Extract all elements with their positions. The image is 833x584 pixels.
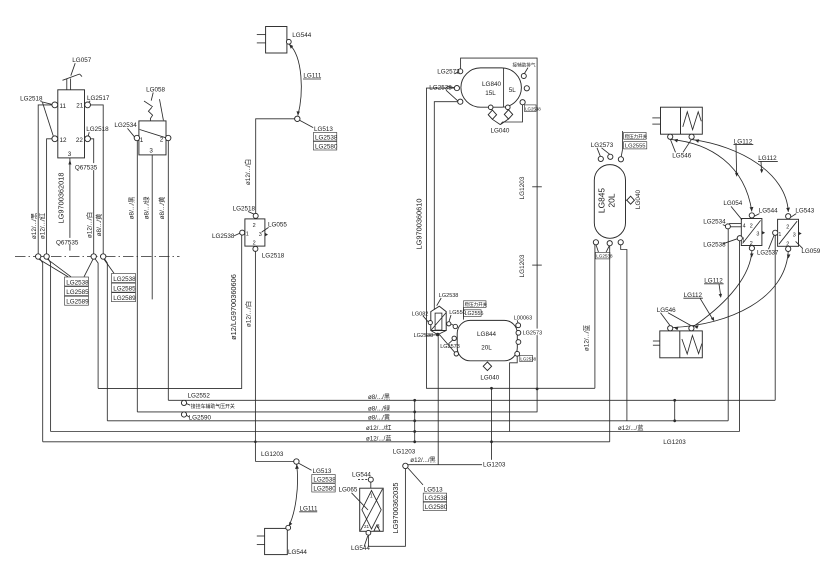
LG055 left port circle (240, 230, 245, 235)
svg-text:ø8/.../黑: ø8/.../黑 (368, 394, 390, 401)
svg-text:LG544: LG544 (292, 32, 311, 39)
riser L3 to LG054 stub (727, 229, 729, 421)
svg-text:4: 4 (743, 224, 746, 230)
LG845 top ports (598, 154, 623, 162)
LG543 top port (786, 214, 791, 219)
LG055 port3 wire to L5 and LG513 coupling (255, 251, 293, 461)
label LG2517 (87, 95, 110, 103)
leader to LG513 stack bottom (299, 463, 312, 470)
svg-text:LG1203: LG1203 (483, 462, 506, 469)
LG546 top chamber ports (668, 134, 695, 139)
LG055 bottom port circle (253, 246, 258, 251)
junction coupling top (295, 116, 300, 121)
trailer tie pipe LG1203 mid (393, 399, 416, 456)
svg-text:ø12/.../红: ø12/.../红 (38, 212, 47, 239)
tie pipe L1-L3 right (663, 399, 686, 446)
relay valve LG543 (778, 219, 802, 247)
svg-text:稳压力开关: 稳压力开关 (625, 133, 648, 140)
svg-text:ø12/.../蓝: ø12/.../蓝 (618, 424, 643, 432)
quick release valve LG054 (741, 219, 765, 247)
trailer control drop pipe (408, 387, 506, 469)
svg-text:LG082: LG082 (412, 311, 429, 317)
svg-text:接挂车辅助气压开关: 接挂车辅助气压开关 (191, 403, 235, 410)
label LG059 (796, 241, 821, 255)
quick coupling B (44, 254, 49, 259)
label LG2573 LG840 (437, 68, 460, 75)
svg-text:LG1203: LG1203 (519, 176, 526, 199)
wire LG058 port2 down (167, 141, 169, 401)
label LG112 bottom-right (704, 277, 724, 298)
LG845 right outlet to L3 (621, 245, 627, 421)
svg-text:LG2555: LG2555 (465, 311, 484, 317)
flow tick 2 (532, 264, 542, 266)
svg-text:LG2538: LG2538 (414, 333, 434, 339)
LG845 left outlet down (joins supply) (594, 245, 596, 388)
junction coupling bottom left (294, 459, 299, 464)
svg-text:11: 11 (60, 103, 67, 110)
svg-text:LG2585: LG2585 (113, 286, 136, 293)
air dryer LG544 top box (257, 27, 287, 54)
svg-text:ø12/.../白: ø12/.../白 (84, 212, 93, 238)
leader to LG513 stack center (408, 468, 423, 485)
svg-text:LG1203: LG1203 (393, 448, 416, 455)
label LG2537 (756, 235, 779, 256)
check valve diamonds and LG040 drain (488, 105, 522, 135)
hose LG112 C bottom (693, 251, 754, 329)
label LG2538 LG840 (429, 84, 457, 101)
port 21 circle (85, 102, 91, 108)
svg-text:LG2538: LG2538 (113, 276, 136, 283)
air tank LG844 (457, 320, 517, 360)
label LG2518 right (86, 125, 110, 136)
label LG2538 assembly bottom (414, 333, 436, 339)
label LG2538 assembly top (437, 293, 459, 306)
wire port21 branch to LG055 port1 (98, 235, 242, 388)
svg-text:LG111: LG111 (303, 73, 321, 80)
svg-text:ø8/.../黄: ø8/.../黄 (368, 413, 390, 421)
svg-text:LG055: LG055 (268, 221, 287, 228)
svg-text:LG058: LG058 (146, 87, 165, 94)
label L00063 (514, 315, 532, 322)
svg-text:2: 2 (750, 224, 753, 230)
port 2 circle LG058 (166, 135, 171, 140)
svg-text:接辅助排气: 接辅助排气 (513, 62, 536, 69)
svg-text:ø8/.../绿: ø8/.../绿 (368, 404, 391, 412)
svg-text:ø12/.../蓝: ø12/.../蓝 (366, 434, 391, 442)
svg-text:ø12/.../蓝: ø12/.../蓝 (581, 324, 590, 351)
leader to fitting stack 2 (104, 259, 114, 273)
port 12 circle (52, 136, 58, 142)
protection valve LG055 body (245, 219, 268, 246)
LG845 bottom ports (593, 240, 623, 246)
svg-text:LG1203: LG1203 (261, 451, 284, 458)
trailer pipe to L3 (104, 259, 107, 421)
vent label and port (513, 62, 536, 79)
svg-text:LG2538: LG2538 (520, 357, 536, 362)
svg-text:LG2538: LG2538 (212, 233, 235, 240)
leader to LG513 stack top (300, 120, 313, 127)
svg-text:LG9700362018: LG9700362018 (57, 173, 66, 224)
air tank LG840 (461, 68, 522, 107)
LG054 left port (737, 236, 742, 241)
svg-text:LG040: LG040 (491, 128, 510, 135)
assembly right port (447, 322, 451, 326)
hand brake valve LG057 body (58, 90, 85, 158)
label LG111 top (303, 73, 322, 80)
LG040 drain of LG844 (480, 362, 499, 382)
quick coupling A (36, 254, 41, 259)
svg-text:LG2590: LG2590 (189, 414, 212, 421)
riser L1 to LG543 port1 (774, 235, 776, 400)
svg-text:LG057: LG057 (72, 57, 91, 64)
svg-text:ø12/.../白: ø12/.../白 (243, 159, 252, 185)
label ø12 blue right (617, 422, 658, 430)
svg-text:3: 3 (793, 232, 796, 238)
svg-text:LG040: LG040 (480, 375, 499, 382)
label LG544 above LG065 (352, 472, 371, 480)
junction coupling bottom center (403, 463, 408, 468)
svg-text:LG2537: LG2537 (757, 250, 779, 256)
label LG2518 left (20, 96, 53, 136)
label LG112 bottom-left (683, 292, 714, 322)
svg-text:LG1203: LG1203 (663, 439, 686, 446)
fitting stack 1 LG2538 LG2585 LG2589 (65, 277, 90, 306)
svg-text:20L: 20L (607, 193, 617, 207)
flow tick 1 (532, 186, 542, 188)
spring brake chamber LG546 top (652, 107, 702, 134)
main line L5 (43, 441, 610, 443)
lever of LG058 (144, 99, 163, 121)
svg-text:ø8/.../黄: ø8/.../黄 (94, 213, 103, 236)
supply loop over LG840 (461, 58, 537, 412)
label LG2573 LG845 (591, 142, 614, 156)
svg-text:3: 3 (68, 151, 72, 158)
trailer pipe to L4 (48, 259, 50, 432)
svg-text:LG2573: LG2573 (591, 142, 614, 149)
wire port12 to pipe (47, 139, 52, 254)
label LG2573 right of LG844 (522, 329, 542, 336)
wire port11 to left pipe (38, 105, 52, 254)
assembly bottom node (436, 333, 440, 337)
label LG544 below LG065 (351, 536, 370, 552)
label LG065 (339, 487, 369, 510)
svg-text:LG2518: LG2518 (262, 253, 285, 260)
svg-text:LG513: LG513 (424, 487, 443, 494)
label LG111 bottom (299, 505, 318, 512)
svg-text:LG2518: LG2518 (20, 96, 43, 103)
feed pipe LG840 to protection assembly (434, 102, 457, 310)
LG844 bottom right port (515, 351, 520, 356)
svg-text:21: 21 (364, 524, 370, 529)
LG054 inlet stub (725, 224, 741, 229)
label LG550 (449, 310, 466, 322)
svg-text:LG2573: LG2573 (440, 344, 460, 350)
port 1 circle LG058 (134, 135, 139, 140)
svg-text:LG2538: LG2538 (425, 495, 448, 502)
boxed label LG2538 at LG844 (520, 355, 537, 361)
wire port22 to pipe (91, 139, 94, 254)
LG840 right mid port (524, 86, 529, 91)
svg-text:LG2518: LG2518 (86, 126, 109, 133)
svg-text:Q67535: Q67535 (75, 165, 98, 172)
svg-text:12: 12 (60, 137, 68, 144)
svg-text:LG9700362035: LG9700362035 (391, 483, 400, 534)
label LG2534 (114, 122, 137, 137)
label LG054 (723, 200, 742, 220)
svg-text:LG1203: LG1203 (519, 254, 526, 277)
LG840 drain port (520, 100, 525, 105)
LG513 stack bottom (312, 468, 337, 493)
pressure switch LG2590 (181, 412, 211, 422)
svg-text:1: 1 (778, 232, 781, 238)
svg-text:ø12/LG9700360606: ø12/LG9700360606 (229, 274, 238, 340)
fitting stack 2 LG2538 LG2585 LG2589 (112, 274, 137, 303)
hose LG111 bottom (289, 464, 299, 526)
svg-text:LG2585: LG2585 (66, 289, 89, 296)
label LG2538 right (703, 239, 737, 249)
hose LG112 D bottom (673, 252, 791, 331)
svg-text:LG9700360610: LG9700360610 (414, 199, 423, 250)
label LG058 (146, 87, 165, 101)
pressure switch label on LG844 (464, 301, 488, 320)
LG543 bottom port (786, 246, 791, 251)
LG065 top port (368, 477, 373, 482)
svg-text:LG2580: LG2580 (315, 144, 338, 151)
boxed label LG2538 under LG845 (596, 245, 613, 259)
hose LG112 A top (671, 139, 753, 212)
svg-text:2: 2 (160, 137, 164, 144)
LG844 left ports (452, 324, 458, 356)
wire junction to LG055 (256, 119, 295, 214)
LG065 outlet to coupling (368, 469, 405, 547)
main line L2 (137, 411, 537, 413)
svg-text:LG2538: LG2538 (313, 477, 336, 484)
svg-text:LG2538: LG2538 (703, 241, 726, 248)
svg-text:LG2538: LG2538 (596, 254, 613, 259)
valve LG058 body (139, 121, 166, 155)
LG054 bottom port (749, 246, 754, 251)
svg-text:LG2538: LG2538 (439, 293, 459, 299)
LG844 outlet to L4 (510, 356, 518, 431)
svg-text:1: 1 (370, 494, 373, 500)
LG844 right ports (516, 323, 521, 345)
air dryer LG544 bottom box (257, 528, 288, 554)
svg-text:LG544: LG544 (288, 549, 307, 556)
svg-text:L00063: L00063 (514, 315, 532, 321)
port 3 exhaust line Q67535 (55, 158, 97, 251)
label LG2534 right (703, 219, 726, 226)
label LG057 (71, 57, 92, 75)
svg-text:ø12/.../黑: ø12/.../黑 (30, 212, 38, 239)
air tank LG845 (594, 165, 625, 239)
main line L4 (51, 431, 740, 433)
hose LG111 top (289, 44, 301, 116)
svg-text:ø8/.../黑: ø8/.../黑 (127, 196, 135, 219)
svg-text:LG2534: LG2534 (114, 122, 137, 129)
label LG2538 left of LG055 (212, 233, 240, 240)
assembly left port (428, 321, 432, 325)
svg-text:LG543: LG543 (795, 207, 814, 214)
svg-text:LG112: LG112 (704, 277, 723, 284)
wire LG058 port3 exhaust down (151, 155, 153, 300)
svg-text:3: 3 (377, 524, 380, 530)
svg-text:ø12/.../黑: ø12/.../黑 (410, 457, 435, 464)
LG840 top-left port circle (458, 69, 463, 74)
svg-text:LG2573: LG2573 (437, 68, 460, 75)
riser L4 to LG054 port1 (739, 241, 741, 432)
svg-text:LG544: LG544 (759, 207, 778, 214)
trailer pipe to LG055 feed (95, 259, 98, 389)
svg-text:2: 2 (786, 224, 789, 230)
small boxed label LG2538 (525, 105, 542, 112)
svg-text:LG2517: LG2517 (87, 95, 110, 102)
svg-text:LG040: LG040 (635, 189, 642, 209)
label LG544 right (754, 207, 778, 216)
trailer pipe to L5 (40, 259, 43, 442)
assembly outlet down (437, 336, 439, 464)
LG840 left ports (454, 86, 463, 105)
svg-text:ø12/.../红: ø12/.../红 (366, 424, 391, 432)
main line L1 (168, 399, 775, 401)
svg-text:LG2552: LG2552 (188, 393, 211, 400)
svg-text:ø12/.../白: ø12/.../白 (243, 301, 252, 327)
LG544 outlet circle (286, 39, 291, 44)
svg-text:ø8/.../黄: ø8/.../黄 (157, 196, 166, 219)
single check valve LG065 (360, 488, 384, 531)
hose LG112 B top (692, 139, 790, 212)
label LG543 (791, 207, 815, 217)
port 22 circle (85, 136, 91, 142)
svg-text:22: 22 (76, 137, 84, 144)
LG065 bottom port (366, 530, 371, 535)
svg-text:ø8/.../绿: ø8/.../绿 (142, 196, 151, 219)
label LG082 (412, 311, 429, 321)
svg-text:LG845: LG845 (597, 188, 607, 213)
svg-text:1: 1 (140, 137, 144, 144)
label LG112 top-right (758, 155, 778, 173)
svg-text:Q67535: Q67535 (56, 239, 79, 246)
svg-text:LG544: LG544 (352, 472, 371, 479)
svg-text:21: 21 (76, 103, 84, 110)
svg-text:5L: 5L (509, 87, 517, 94)
lever of LG057 (63, 74, 83, 90)
svg-text:20L: 20L (481, 345, 492, 352)
svg-text:1: 1 (246, 232, 249, 238)
svg-text:LG2580: LG2580 (425, 504, 448, 511)
LG040 port of LG845 (626, 189, 642, 209)
svg-text:LG2573: LG2573 (523, 330, 543, 336)
label LG2518 above LG055 (233, 206, 256, 215)
svg-text:2: 2 (253, 240, 256, 246)
svg-text:LG2518: LG2518 (233, 206, 256, 213)
svg-text:2: 2 (253, 223, 256, 229)
pressure switch LG2552 (181, 393, 210, 406)
svg-text:LG2538: LG2538 (525, 106, 541, 111)
svg-text:LG112: LG112 (684, 292, 703, 299)
svg-text:LG2538: LG2538 (66, 279, 89, 286)
leaders to fitting stack 1 (39, 259, 93, 277)
LG513 stack top (313, 126, 338, 151)
svg-text:15L: 15L (485, 90, 496, 97)
LG513 stack center (423, 487, 448, 512)
svg-text:3: 3 (259, 232, 262, 238)
svg-text:LG2534: LG2534 (703, 219, 726, 226)
label LG546 bottom (657, 307, 691, 326)
svg-text:LG2555: LG2555 (625, 144, 646, 150)
svg-text:3: 3 (756, 232, 759, 238)
svg-text:LG054: LG054 (723, 200, 742, 207)
LG543 left port (773, 230, 778, 235)
wire port21 to pipe (91, 105, 104, 254)
label LG055 (262, 221, 288, 232)
svg-text:LG513: LG513 (313, 468, 332, 475)
svg-text:LG544: LG544 (351, 545, 370, 552)
svg-text:LG2589: LG2589 (113, 295, 136, 302)
svg-text:LG840: LG840 (482, 81, 501, 88)
svg-text:LG513: LG513 (314, 126, 333, 133)
svg-text:LG2580: LG2580 (313, 486, 336, 493)
wire LG058 port1 down (136, 141, 138, 412)
LG544 bottom inlet circle (286, 525, 291, 530)
port 11 circle (52, 102, 58, 108)
svg-text:LG546: LG546 (672, 153, 691, 160)
spring brake chamber LG546 bottom (653, 331, 702, 358)
label LG2573 left of LG844 (440, 340, 460, 350)
link assembly to LG844 top-left port (451, 324, 454, 326)
label LG546 top (671, 140, 692, 160)
svg-text:LG844: LG844 (477, 331, 496, 338)
pressure switch label on LG845 (621, 131, 647, 157)
chassis centerline (15, 256, 180, 258)
LG054 top port (749, 213, 754, 218)
svg-text:LG059: LG059 (801, 248, 820, 255)
svg-text:3: 3 (149, 148, 153, 155)
svg-text:稳压力开关: 稳压力开关 (465, 301, 488, 308)
LG055 top port circle (253, 213, 258, 218)
svg-text:LG065: LG065 (339, 487, 358, 494)
LG546 bottom chamber ports (668, 326, 694, 331)
LG845 middle outlet to L5 (609, 246, 611, 442)
link assembly to LG844 lower-left port (440, 335, 455, 353)
svg-text:LG2538: LG2538 (315, 135, 338, 142)
pressure protection assembly body (431, 306, 446, 334)
svg-text:LG111: LG111 (300, 505, 318, 512)
supply pipe LG840 to LG845 (427, 88, 595, 388)
label LG112 top-left (734, 138, 754, 177)
svg-text:LG2589: LG2589 (66, 299, 89, 306)
quick coupling D (101, 254, 106, 259)
main line L3 (107, 420, 728, 422)
quick coupling C (91, 254, 96, 259)
svg-text:LG546: LG546 (657, 307, 676, 314)
